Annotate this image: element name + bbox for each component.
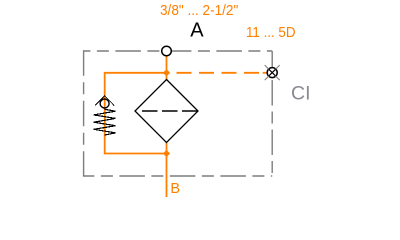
filter F1 (diamond) (135, 80, 198, 143)
svg-text:11 ... 5D: 11 ... 5D (246, 24, 296, 41)
svg-text:A: A (190, 20, 204, 42)
junction node (top) (163, 69, 170, 76)
enclosure dashed border: left edge (83, 50, 85, 176)
clogging indicator circle (267, 68, 277, 78)
check valve V1 ball (100, 99, 109, 108)
wire: dashed pilot line to clogging indicator (167, 72, 268, 74)
enclosure dashed border: bottom edge (83, 175, 272, 177)
port A circle (162, 46, 172, 56)
filter element dashed line (142, 110, 197, 112)
enclosure dashed border: right edge lower segment (271, 78, 273, 176)
wire: port A vertical drop (166, 56, 168, 80)
clogging indicator inner cross (269, 69, 276, 76)
svg-text:3/8" ... 2-1/2": 3/8" ... 2-1/2" (160, 2, 238, 19)
junction node (bottom) (163, 150, 170, 157)
enclosure dashed border: right edge upper segment (271, 51, 273, 67)
wire: top horizontal to bypass branch (104, 72, 167, 74)
check valve V1 seat (95, 96, 114, 106)
wire: filter bottom stub to port B (166, 143, 168, 198)
wire: pilot line stub at indicator (263, 72, 268, 74)
spring (94, 109, 116, 135)
enclosure dashed border: top edge (84, 50, 273, 52)
wire: bypass branch left vertical (104, 73, 106, 154)
wire: bottom horizontal from bypass branch (104, 153, 167, 155)
svg-text:B: B (170, 181, 180, 197)
svg-text:CI: CI (291, 82, 311, 104)
clogging indicator diagonal arms (265, 65, 280, 80)
